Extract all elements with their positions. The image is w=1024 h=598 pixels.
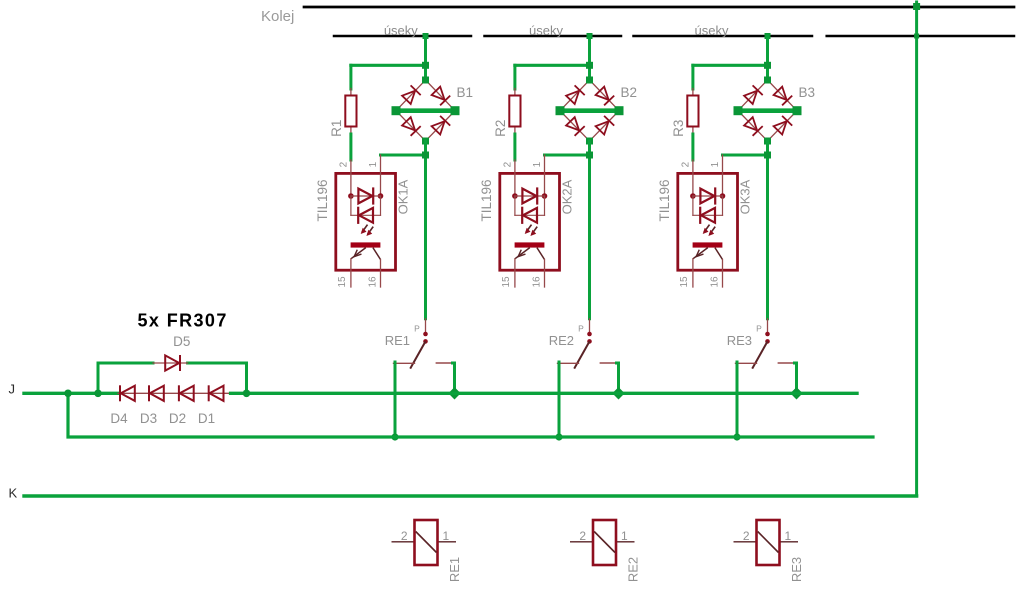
contact RE2 pivot dots	[587, 332, 592, 344]
label RE3 contact	[727, 333, 752, 348]
svg-text:1: 1	[710, 161, 721, 167]
svg-text:OK1A: OK1A	[395, 179, 410, 214]
svg-text:16: 16	[368, 276, 379, 288]
svg-text:2: 2	[401, 529, 408, 543]
opto OK3A base bar	[693, 242, 723, 247]
opto OK3A LED link	[693, 196, 723, 215]
label pin 15	[679, 276, 690, 288]
label P 2	[578, 324, 584, 334]
label B2	[621, 85, 638, 100]
svg-text:D3: D3	[140, 411, 157, 426]
opto OK1A LED1	[351, 187, 381, 204]
opto OK2A pin 2 wire	[514, 160, 516, 196]
svg-text:B2: B2	[621, 85, 638, 100]
svg-text:Kolej: Kolej	[261, 8, 294, 25]
wire J bus left	[24, 392, 118, 395]
junction pin1 node 3	[764, 152, 771, 159]
wire bypass bus2	[68, 393, 873, 437]
bridge B1 pad top	[422, 77, 429, 84]
label pin 2	[680, 161, 691, 167]
contact RE3 right stub	[778, 362, 794, 364]
opto OK3A LED1	[693, 187, 723, 204]
svg-text:5x FR307: 5x FR307	[138, 311, 228, 331]
wire contact 1 right down	[453, 363, 455, 393]
label D2	[169, 411, 186, 426]
bridge B3 pad top	[764, 77, 771, 84]
svg-text:16: 16	[710, 276, 721, 288]
junction úseky-1	[423, 33, 429, 39]
svg-text:RE1: RE1	[385, 333, 410, 348]
svg-text:úseky: úseky	[529, 23, 563, 38]
label coil 1 pin 2	[401, 529, 408, 543]
relay coil RE3 stubs	[734, 541, 799, 543]
label pin 16	[710, 276, 721, 288]
wire úseky segment 2	[485, 35, 622, 38]
junction on Kolej rail	[913, 3, 920, 10]
label OK1A	[395, 179, 410, 214]
label coil 2 pin 2	[579, 529, 586, 543]
junction J left	[64, 390, 72, 398]
wire úseky segment 1	[334, 35, 471, 38]
label B3	[799, 85, 816, 100]
resistor R2	[509, 96, 520, 127]
label J	[9, 382, 16, 397]
bridge B3 diode top-left	[744, 85, 763, 104]
label coil 1 pin 1	[443, 529, 450, 543]
opto OK1A transistor	[351, 248, 381, 287]
label P 1	[414, 324, 420, 334]
opto OK3A LED2	[693, 207, 723, 224]
bridge B2 bar	[560, 108, 619, 113]
opto OK3A transistor	[693, 248, 723, 287]
svg-text:D5: D5	[173, 334, 190, 349]
wire contact 3 left down	[736, 362, 739, 437]
opto OK1A pin 2 wire	[350, 160, 352, 196]
opto OK1A base bar	[351, 242, 381, 247]
wire contact 2 left down	[558, 362, 561, 437]
opto OK1A LED node dots	[348, 193, 383, 199]
wire opto pin1 branch	[381, 154, 426, 157]
opto OK2A pin 1 wire	[544, 155, 546, 196]
bridge B3 pad bottom	[764, 138, 771, 145]
contact RE2 pin P wire	[589, 319, 591, 334]
svg-text:D2: D2	[169, 411, 186, 426]
opto OK2A transistor	[515, 248, 545, 287]
label D3	[140, 411, 157, 426]
bridge B2 diode bottom-left	[566, 117, 585, 136]
svg-text:R1: R1	[329, 120, 344, 137]
resistor R1 pins	[350, 89, 352, 135]
label pin 2	[502, 161, 513, 167]
bridge B2 diode top-left	[566, 85, 585, 104]
svg-text:úseky: úseky	[695, 23, 729, 38]
label B1	[457, 85, 474, 100]
label úseky 3	[695, 23, 729, 38]
diode D3	[149, 385, 164, 401]
diode D5	[153, 355, 188, 371]
label RE1 contact	[385, 333, 410, 348]
opto OK3A LED node dots	[690, 193, 725, 199]
wire úseky segment 4	[827, 35, 1014, 38]
wire R2 to opto pin2	[513, 134, 516, 160]
wire R3 to opto pin2	[691, 134, 694, 160]
bridge B1 bar	[396, 108, 455, 113]
bridge B1 pad bottom	[422, 138, 429, 145]
wire contact 3 right down	[795, 363, 797, 393]
bridge B1 pad right	[451, 106, 460, 115]
contact RE1 pin P wire	[425, 319, 427, 334]
svg-text:RE1: RE1	[447, 557, 462, 582]
label RE3 coil	[789, 557, 804, 582]
contact RE3 pivot dots	[765, 332, 770, 344]
opto OK3A pin 1 wire	[722, 155, 724, 196]
label RE2 coil	[626, 557, 641, 582]
svg-text:TIL196: TIL196	[657, 179, 672, 221]
opto OK2A LED link	[515, 196, 545, 215]
contact RE3 left stub	[736, 362, 757, 364]
label pin 1	[532, 161, 543, 167]
contact RE1 right stub	[436, 362, 452, 364]
svg-text:2: 2	[502, 161, 513, 167]
wire D5 branch	[98, 363, 247, 393]
svg-text:J: J	[9, 382, 16, 397]
label OK2A	[559, 179, 574, 214]
wire úseky segment 3	[634, 35, 813, 38]
op-to coupler OK2A box	[500, 173, 560, 270]
label pin 1	[710, 161, 721, 167]
svg-text:TIL196: TIL196	[479, 179, 494, 221]
svg-text:1: 1	[532, 161, 543, 167]
svg-text:OK2A: OK2A	[559, 179, 574, 214]
contact RE1 left stub	[394, 362, 415, 364]
label R3	[671, 120, 686, 137]
wire contact 2 right down	[617, 363, 619, 393]
top rail Kolej	[304, 6, 1014, 9]
opto OK2A LED2	[515, 207, 545, 224]
svg-text:RE2: RE2	[549, 333, 574, 348]
label R1	[329, 120, 344, 137]
op-to coupler OK3A box	[678, 173, 738, 270]
opto OK2A base bar	[515, 242, 545, 247]
label pin 16	[532, 276, 543, 288]
relay coil RE2 stubs	[570, 541, 635, 543]
bridge B1 diode bottom-right	[432, 116, 451, 135]
label TIL196	[479, 179, 494, 221]
label úseky 2	[529, 23, 563, 38]
junction pin1 node 2	[586, 152, 593, 159]
bridge B1 diode top-left	[402, 85, 421, 104]
opto OK2A light arrows	[525, 225, 538, 236]
svg-text:P: P	[578, 324, 584, 334]
diode D1	[209, 385, 224, 401]
opto OK1A LED2	[351, 207, 381, 224]
svg-text:R3: R3	[671, 120, 686, 137]
opto OK1A pin 1 wire	[380, 155, 382, 196]
label R2	[493, 120, 508, 137]
svg-text:15: 15	[679, 276, 690, 288]
junction úseky-2	[587, 33, 593, 39]
contact RE1 pivot dots	[423, 332, 428, 344]
svg-text:1: 1	[368, 161, 379, 167]
contact RE3 arm	[752, 341, 767, 368]
resistor R1	[345, 96, 356, 127]
bridge B3 frame	[738, 80, 797, 141]
junction on úseky line 4	[914, 34, 919, 39]
label pin 2	[338, 161, 349, 167]
svg-text:OK3A: OK3A	[737, 179, 752, 214]
bridge B3 pad right	[793, 106, 802, 115]
bridge B2 diode top-right	[596, 87, 615, 106]
wire J diode string	[118, 392, 231, 394]
bridge B2 pad left	[556, 106, 565, 115]
opto OK2A LED node dots	[512, 193, 547, 199]
relay coil RE1 stubs	[392, 541, 457, 543]
label pin 15	[501, 276, 512, 288]
label pin 1	[368, 161, 379, 167]
wire section 1 drop	[424, 36, 427, 80]
label D5	[173, 334, 190, 349]
junction bus2 1	[391, 433, 398, 440]
svg-text:P: P	[414, 324, 420, 334]
junction D5 left	[94, 390, 102, 398]
label RE1 coil	[447, 557, 462, 582]
junction bus2 3	[733, 433, 740, 440]
bridge B1 pad left	[392, 106, 401, 115]
wire K bus	[24, 494, 917, 497]
wire R3 branch	[693, 65, 768, 89]
junction J bus 3	[790, 387, 802, 399]
diode D4	[120, 385, 135, 401]
contact RE2 right stub	[600, 362, 616, 364]
label D4	[110, 411, 128, 426]
resistor R3 pins	[692, 89, 694, 135]
svg-text:B1: B1	[457, 85, 474, 100]
wire R1 to opto pin2	[349, 134, 352, 160]
svg-text:RE2: RE2	[626, 557, 641, 582]
bridge B3 diode bottom-left	[744, 117, 763, 136]
bridge B2 frame	[560, 80, 619, 141]
wire opto pin1 branch	[545, 154, 590, 157]
label Kolej	[261, 8, 294, 25]
svg-text:B3: B3	[799, 85, 816, 100]
junction node section 3 top	[764, 62, 771, 69]
opto OK1A LED link	[351, 196, 381, 215]
svg-text:1: 1	[621, 529, 628, 543]
relay coil RE3	[757, 520, 780, 565]
bridge B1 diode bottom-left	[402, 117, 421, 136]
opto OK2A LED1	[515, 187, 545, 204]
label OK3A	[737, 179, 752, 214]
label pin 15	[337, 276, 348, 288]
svg-text:P: P	[756, 324, 762, 334]
junction node section 1 top	[422, 62, 429, 69]
label pin 16	[368, 276, 379, 288]
label RE2 contact	[549, 333, 574, 348]
svg-text:úseky: úseky	[384, 23, 418, 38]
opto OK3A pin 2 wire	[692, 160, 694, 196]
svg-text:16: 16	[532, 276, 543, 288]
wire opto pin1 branch	[723, 154, 768, 157]
bridge B3 bar	[738, 108, 797, 113]
bridge B2 pad bottom	[586, 138, 593, 145]
wire R1 branch	[351, 65, 426, 89]
bridge B2 diode bottom-right	[596, 116, 615, 135]
svg-text:TIL196: TIL196	[315, 179, 330, 221]
label coil 2 pin 1	[621, 529, 628, 543]
wire section 2 drop	[588, 36, 591, 80]
wire section 3 drop	[766, 36, 769, 80]
svg-text:D4: D4	[110, 411, 128, 426]
junction pin1 node 1	[422, 152, 429, 159]
diode D2	[179, 385, 194, 401]
bridge B2 pad right	[615, 106, 624, 115]
wire R2 branch	[515, 65, 590, 89]
opto OK3A light arrows	[703, 225, 716, 236]
bridge B1 diode top-right	[432, 87, 451, 106]
junction bus2 2	[555, 433, 562, 440]
svg-text:2: 2	[579, 529, 586, 543]
label D1	[198, 411, 215, 426]
relay coil RE2	[593, 520, 616, 565]
svg-text:15: 15	[337, 276, 348, 288]
contact RE1 arm	[410, 341, 425, 368]
resistor R2 pins	[514, 89, 516, 135]
svg-text:2: 2	[743, 529, 750, 543]
junction J bus 2	[612, 387, 624, 399]
bridge B2 pad top	[586, 77, 593, 84]
resistor R3	[687, 96, 698, 127]
label TIL196	[315, 179, 330, 221]
bridge B3 diode bottom-right	[774, 116, 793, 135]
svg-text:15: 15	[501, 276, 512, 288]
bridge B1 frame	[396, 80, 455, 141]
svg-text:RE3: RE3	[789, 557, 804, 582]
label coil 3 pin 1	[785, 529, 792, 543]
svg-text:RE3: RE3	[727, 333, 752, 348]
svg-text:2: 2	[680, 161, 691, 167]
label P 3	[756, 324, 762, 334]
wire J bus right	[231, 392, 857, 395]
junction node section 2 top	[586, 62, 593, 69]
label 5x FR307	[138, 311, 228, 331]
contact RE2 left stub	[558, 362, 579, 364]
bridge B3 pad left	[734, 106, 743, 115]
svg-text:1: 1	[443, 529, 450, 543]
wire contact 1 left down	[394, 362, 397, 437]
wire section 1 main vertical	[424, 141, 427, 319]
bridge B3 diode top-right	[774, 87, 793, 106]
label úseky 1	[384, 23, 418, 38]
svg-text:R2: R2	[493, 120, 508, 137]
junction úseky-3	[765, 33, 771, 39]
contact RE2 arm	[574, 341, 589, 368]
wire K vertical from Kolej rail	[915, 2, 918, 496]
svg-text:1: 1	[785, 529, 792, 543]
svg-text:2: 2	[338, 161, 349, 167]
label coil 3 pin 2	[743, 529, 750, 543]
svg-text:D1: D1	[198, 411, 215, 426]
label TIL196	[657, 179, 672, 221]
junction D5 right	[243, 390, 251, 398]
junction J bus 1	[448, 387, 460, 399]
opto OK1A light arrows	[361, 225, 374, 236]
contact RE3 pin P wire	[767, 319, 769, 334]
wire section 3 main vertical	[766, 141, 769, 319]
relay coil RE1	[415, 520, 438, 565]
label K	[9, 486, 18, 501]
op-to coupler OK1A box	[336, 173, 396, 270]
svg-text:K: K	[9, 486, 18, 501]
wire section 2 main vertical	[588, 141, 591, 319]
